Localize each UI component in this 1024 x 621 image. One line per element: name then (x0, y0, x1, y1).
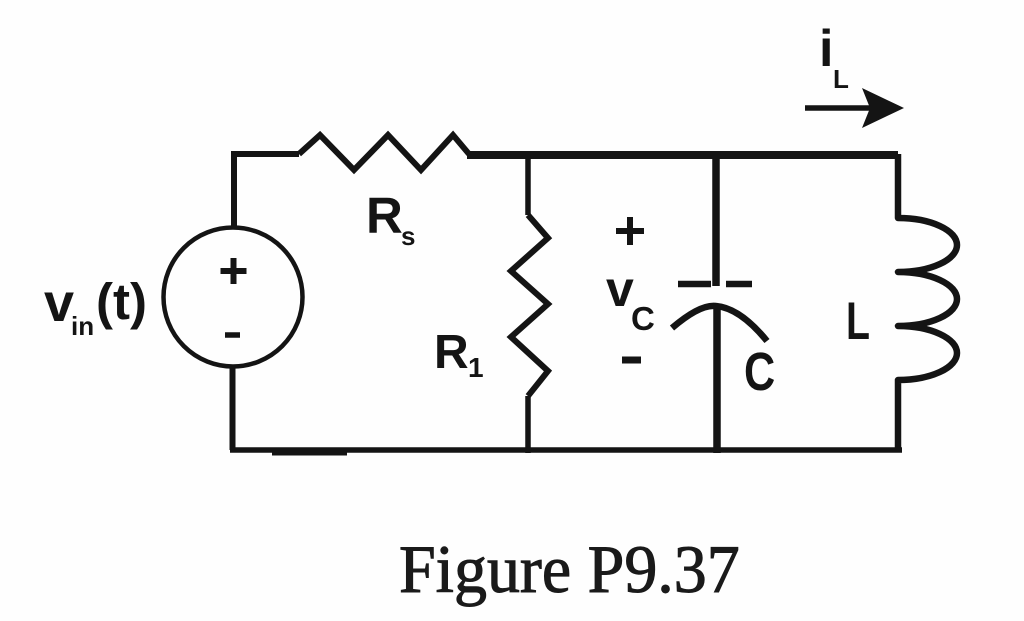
svg-text:L: L (846, 291, 870, 350)
svg-text:Figure P9.37: Figure P9.37 (399, 532, 740, 607)
svg-text:L: L (833, 64, 849, 94)
svg-text:in: in (71, 311, 94, 341)
svg-text:v: v (44, 273, 74, 333)
svg-text:(t): (t) (96, 273, 147, 330)
svg-text:v: v (606, 261, 634, 317)
svg-text:R: R (434, 326, 469, 379)
svg-text:C: C (744, 343, 775, 403)
svg-text:i: i (819, 20, 833, 78)
svg-text:s: s (401, 221, 415, 251)
svg-text:C: C (631, 300, 655, 337)
svg-text:1: 1 (468, 352, 484, 383)
svg-text:R: R (366, 187, 403, 244)
